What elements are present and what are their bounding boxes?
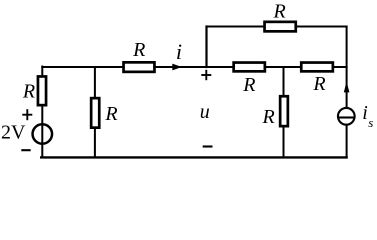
svg-text:R: R [104, 103, 117, 125]
svg-text:R: R [272, 1, 285, 23]
svg-text:R: R [312, 73, 325, 95]
svg-text:s: s [368, 115, 373, 130]
svg-text:i: i [362, 102, 368, 124]
svg-text:R: R [22, 81, 35, 103]
svg-text:R: R [261, 106, 274, 128]
svg-text:R: R [242, 74, 255, 96]
svg-text:u: u [200, 101, 210, 123]
svg-text:2V: 2V [1, 121, 26, 143]
svg-text:R: R [132, 39, 145, 61]
svg-text:i: i [176, 39, 182, 64]
